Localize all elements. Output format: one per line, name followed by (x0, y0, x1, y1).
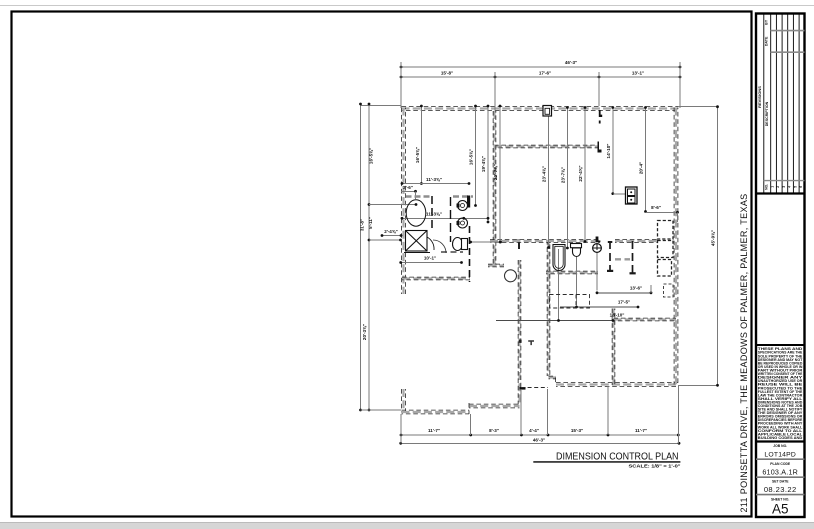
svg-text:DIMENSION CONTROL PLAN: DIMENSION CONTROL PLAN (556, 452, 679, 463)
svg-text:4: 4 (788, 186, 792, 188)
bath2 top wall (490, 240, 600, 243)
svg-text:17'-6": 17'-6" (539, 70, 551, 75)
hallway wall (488, 264, 504, 267)
hall wall jamb (598, 142, 602, 153)
powder wall (609, 241, 611, 272)
disclaimer text block (758, 347, 804, 440)
cabinets right wall (664, 284, 674, 297)
left overall dim 31-8 (360, 104, 362, 410)
svg-text:08.23.22: 08.23.22 (764, 485, 797, 494)
dim 13-6 (596, 252, 598, 291)
svg-text:23'-4⅝": 23'-4⅝" (542, 166, 547, 182)
job / plan / date / sheet cells (756, 444, 805, 516)
svg-text:16'-5⅝": 16'-5⅝" (415, 147, 420, 163)
svg-text:REVISIONS: REVISIONS (757, 86, 762, 108)
door jamb (599, 110, 602, 117)
left connectors (369, 204, 416, 206)
svg-text:1: 1 (771, 186, 775, 188)
svg-text:PLAN CODE: PLAN CODE (770, 462, 791, 466)
vanity wall (406, 195, 430, 198)
wc wall (632, 241, 634, 274)
svg-text:5: 5 (793, 186, 797, 188)
pedestal sink (573, 248, 581, 257)
left wall lower piece (402, 389, 406, 413)
column (505, 270, 517, 282)
interior dim 20-4 (645, 108, 647, 212)
wall T piece (528, 340, 534, 345)
bottom wall step (469, 404, 520, 408)
svg-text:11'-3⅝": 11'-3⅝" (426, 177, 442, 182)
svg-text:16'-5⅝": 16'-5⅝" (369, 148, 374, 164)
top extension lines (400, 62, 402, 108)
left dim chain (368, 104, 370, 410)
door arc (433, 240, 446, 253)
svg-text:10'-1": 10'-1" (424, 255, 436, 260)
kitchen island (550, 295, 590, 309)
interior dim 22-4 (584, 108, 586, 242)
garage bottom wall (402, 410, 470, 414)
svg-text:13'-1": 13'-1" (632, 70, 644, 75)
svg-text:8'-6": 8'-6" (651, 205, 661, 210)
interior dim 14-10 (612, 108, 614, 194)
entry wall (518, 260, 521, 405)
svg-text:211 POINSETTA DRIVE, THE M: 211 POINSETTA DRIVE, THE MEADOWS OF PALM… (739, 193, 749, 512)
chimney (543, 106, 552, 117)
tub (406, 200, 426, 226)
svg-text:SCALE: 1/8" = 1'-0": SCALE: 1/8" = 1'-0" (629, 463, 681, 468)
step joint (555, 378, 557, 385)
svg-text:22'-7⅞": 22'-7⅞" (493, 164, 498, 180)
svg-text:2'-4⅝": 2'-4⅝" (384, 229, 398, 234)
interior dim 23-7 (566, 108, 568, 249)
entry wall top T (514, 240, 521, 250)
bottom step right (549, 376, 557, 379)
svg-text:11'-7": 11'-7" (428, 428, 440, 433)
svg-text:15'-8": 15'-8" (441, 70, 453, 75)
dim 11-3 lower (402, 217, 488, 219)
interior dim 23-4 (548, 108, 550, 248)
svg-text:2: 2 (776, 186, 780, 188)
svg-text:DESCRIPTION: DESCRIPTION (765, 101, 769, 126)
svg-text:JOB NO.: JOB NO. (773, 444, 787, 448)
partition tub/vanity (431, 196, 433, 231)
svg-text:45'-9⅝": 45'-9⅝" (710, 230, 715, 246)
svg-text:17'-5": 17'-5" (618, 300, 630, 305)
bottom step joint (468, 403, 470, 414)
kitchen wall right of door (615, 240, 657, 243)
svg-text:20'-3⅝": 20'-3⅝" (362, 324, 367, 340)
svg-text:3: 3 (782, 186, 786, 188)
pantry (658, 221, 674, 240)
round lav (593, 244, 602, 253)
utility wall (402, 277, 470, 280)
hall interior wall (494, 145, 598, 148)
svg-text:SET DATE: SET DATE (772, 480, 789, 484)
dim 17-5 (576, 257, 578, 306)
porch edge (521, 387, 548, 389)
dim 18-10 (558, 249, 560, 321)
shower (406, 231, 435, 252)
dim 10-1 (401, 262, 462, 264)
top dimension row 2 (401, 76, 680, 78)
svg-text:13'-6": 13'-6" (630, 285, 642, 290)
svg-text:18'-10": 18'-10" (610, 312, 625, 317)
svg-text:20'-4": 20'-4" (639, 162, 644, 174)
svg-text:11'-3⅝": 11'-3⅝" (426, 212, 442, 217)
powder dim (471, 241, 501, 243)
svg-text:46'-3": 46'-3" (565, 60, 577, 65)
svg-text:2'-6": 2'-6" (403, 185, 413, 190)
bedroom/bath wall (493, 111, 496, 266)
toilet (453, 238, 463, 251)
svg-text:6: 6 (799, 186, 803, 188)
right exterior wall (674, 108, 678, 385)
svg-text:DATE: DATE (765, 36, 769, 46)
lav sink 2 (458, 218, 468, 228)
svg-text:14'-10": 14'-10" (606, 144, 611, 159)
utility shelf wall (441, 251, 463, 253)
svg-text:4'-4": 4'-4" (529, 428, 539, 433)
dim 11-3 upper (402, 183, 469, 185)
interior dim 19-4 (487, 106, 489, 222)
bottom exterior wall (556, 383, 678, 387)
svg-text:31'-8": 31'-8" (360, 219, 365, 231)
double oven (626, 187, 638, 204)
dining wall (547, 240, 550, 376)
dim 2-6 (401, 190, 416, 192)
sheet title (533, 452, 680, 469)
bottom extension lines (400, 414, 402, 443)
svg-text:A5: A5 (772, 502, 789, 517)
lav sink 1 (458, 201, 468, 211)
svg-text:23'-7⅝": 23'-7⅝" (561, 167, 566, 183)
dim 2-4 (382, 235, 401, 237)
dim 8-6 (646, 211, 678, 213)
svg-text:6103.A.1R: 6103.A.1R (762, 467, 798, 476)
overall top dimension 46-3 (401, 66, 680, 68)
svg-text:BY: BY (765, 19, 769, 25)
bath2 bottom wall (546, 271, 598, 274)
right overall dim 45-9 (678, 106, 718, 108)
interior dim 16-5 (1) (420, 106, 422, 184)
svg-text:19'-4⅝": 19'-4⅝" (481, 156, 486, 172)
svg-text:8'-3": 8'-3" (489, 428, 499, 433)
svg-text:46'-3": 46'-3" (533, 438, 545, 443)
partition (450, 197, 452, 242)
svg-text:15'-3": 15'-3" (571, 428, 583, 433)
pocket wall (615, 258, 630, 260)
bedroom3 wall h (614, 318, 677, 321)
svg-text:LOT14PD: LOT14PD (764, 451, 796, 458)
bedroom3 wall v (612, 309, 615, 386)
bottom dim row 1 (401, 434, 678, 436)
svg-text:BUILDING CODES AND: BUILDING CODES AND (758, 436, 803, 440)
svg-text:11'-7": 11'-7" (635, 428, 647, 433)
svg-text:22'-4⅝": 22'-4⅝" (578, 165, 583, 181)
svg-text:5'-11": 5'-11" (368, 217, 373, 229)
top exterior wall (402, 107, 679, 111)
entry door jambs (519, 340, 522, 343)
svg-text:16'-5⅝": 16'-5⅝" (469, 149, 474, 165)
interior dim 22-7 (499, 106, 501, 242)
interior dim 16-5 (2) (475, 106, 477, 206)
bottom overall 46-3 (401, 442, 679, 444)
tub2 (553, 245, 565, 271)
svg-text:NO.: NO. (765, 184, 769, 190)
left exterior wall (402, 108, 406, 295)
